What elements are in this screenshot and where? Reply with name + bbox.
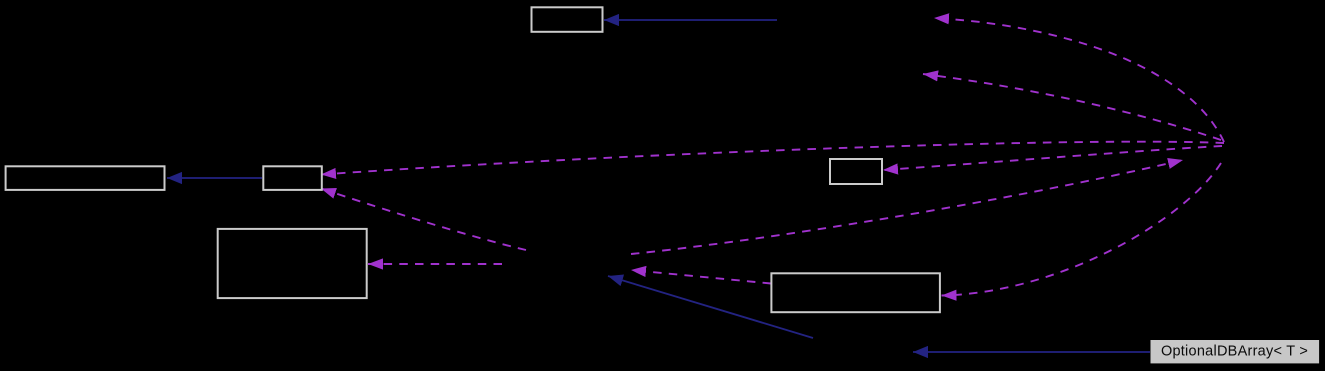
- edge: solid inheritance arrow from box B3 into box B2: [167, 177, 262, 179]
- node B3 (small box): [263, 166, 322, 190]
- svg-text:OptionalDBArray< T >: OptionalDBArray< T >: [1161, 344, 1308, 360]
- node B2 (left wide box): [6, 166, 165, 190]
- edge: solid inheritance arrow from OptionalDBArray box to hidden bottom node: [913, 351, 1150, 353]
- edge: dashed horizontal line from hidden center node to big box B4: [368, 263, 502, 265]
- edge: dashed arc from node T to second top-left node: [923, 74, 1221, 140]
- edge: dashed diagonal from hidden center node up to node T (arrow at right): [631, 160, 1183, 254]
- edge: dashed arc from node T to top-left node: [934, 18, 1224, 142]
- node B5 (small middle box): [830, 159, 882, 184]
- node B6 (middle-bottom box): [771, 273, 940, 312]
- edge: solid inheritance arrow from hidden bottom node to hidden center node: [608, 276, 813, 338]
- edge: dashed line from hidden center node to small box B3 (lower arrow): [321, 189, 526, 251]
- node B4 (big box): [218, 229, 367, 298]
- edge: solid inheritance arrow into box B1: [604, 19, 777, 21]
- node OptionalDBArray< T > (current node, filled): [1151, 340, 1320, 363]
- node B1 (top box): [532, 7, 603, 32]
- edge: dashed arc from node T down to box B6: [942, 163, 1222, 296]
- edge: long dashed line from node T to small box B3 (upper arrow): [321, 142, 1224, 175]
- edge: dashed line from node T to small box B5: [883, 146, 1222, 170]
- edge: dashed line from box B6 to hidden center node: [631, 270, 771, 284]
